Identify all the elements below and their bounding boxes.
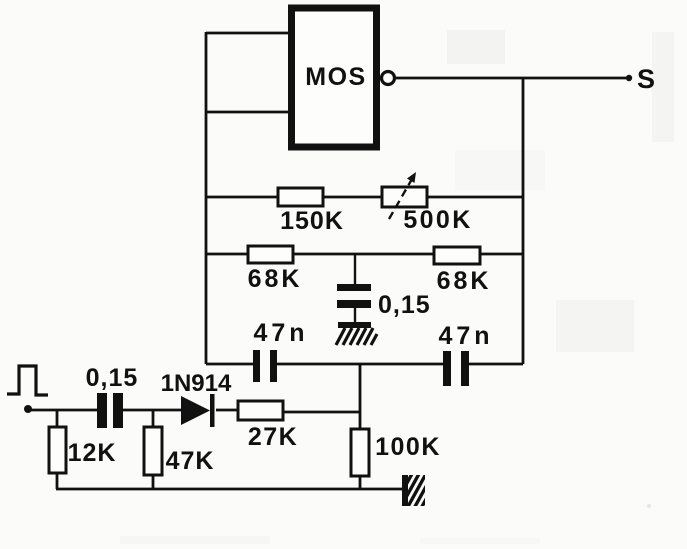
MOS inverter gate U1 bbox=[292, 8, 377, 147]
wire: input to capacitor 0,15 bbox=[28, 409, 97, 412]
svg-text:S: S bbox=[637, 64, 655, 94]
ghost scan artifact top right bbox=[447, 30, 674, 190]
wire: second gate input bbox=[206, 111, 292, 114]
svg-text:150K: 150K bbox=[280, 207, 344, 235]
svg-text:47n: 47n bbox=[253, 319, 308, 347]
svg-text:47n: 47n bbox=[438, 322, 493, 350]
capacitor 0,15 (input) bbox=[86, 364, 139, 428]
capacitor C 0,15 (mid) bbox=[337, 284, 431, 319]
svg-text:MOS: MOS bbox=[305, 63, 366, 91]
resistor 150K bbox=[278, 188, 344, 235]
wire: gate output to S bbox=[395, 77, 629, 80]
resistor 12K bbox=[49, 410, 116, 489]
resistor 68K left bbox=[248, 246, 303, 293]
svg-text:1N914: 1N914 bbox=[161, 370, 232, 397]
resistor 100K bbox=[351, 429, 441, 490]
wire: row 1 (150K / 500K) bbox=[206, 196, 523, 199]
ground (bottom right) bbox=[391, 472, 441, 512]
wire: bottom bus bbox=[56, 488, 402, 491]
resistor 27K bbox=[238, 401, 298, 451]
wire: capacitor to diode bbox=[123, 409, 181, 412]
input terminal dot bbox=[24, 405, 32, 413]
wire: row 2 (68K / 68K) bbox=[206, 253, 523, 256]
diode D1 1N914 bbox=[161, 370, 232, 427]
ghost scan artifact mid right bbox=[120, 300, 651, 544]
capacitor 47n right bbox=[438, 322, 493, 386]
output inversion bubble bbox=[382, 72, 395, 85]
ground (mid) bbox=[336, 322, 377, 345]
svg-text:27K: 27K bbox=[248, 423, 298, 451]
svg-text:500K: 500K bbox=[403, 206, 472, 234]
svg-text:0,15: 0,15 bbox=[378, 291, 431, 319]
wire: row 3 (47n caps) bbox=[206, 363, 253, 366]
svg-text:0,15: 0,15 bbox=[86, 364, 139, 392]
resistor 68K right bbox=[434, 247, 491, 295]
wire: row 3 right segment bbox=[469, 363, 523, 366]
wire: stub row2 to capacitor 0,15 bbox=[354, 254, 356, 285]
wire: right vertical bus bbox=[522, 78, 525, 364]
input pulse symbol bbox=[7, 366, 48, 395]
wire: diode to 27K bbox=[216, 409, 238, 412]
svg-text:68K: 68K bbox=[437, 267, 492, 295]
svg-text:100K: 100K bbox=[375, 433, 441, 461]
wire: top feedback to gate input bbox=[206, 32, 292, 35]
wire: middle vertical (row3 to bottom) bbox=[359, 364, 362, 430]
capacitor 47n left bbox=[253, 319, 309, 382]
svg-text:12K: 12K bbox=[68, 439, 117, 467]
wire: 27K to 100K node bbox=[283, 411, 360, 414]
resistor 47K bbox=[144, 410, 214, 489]
wire: row 3 middle segment bbox=[277, 363, 443, 366]
wire: capacitor to ground bbox=[354, 308, 356, 323]
svg-text:68K: 68K bbox=[248, 265, 303, 293]
svg-text:47K: 47K bbox=[166, 447, 215, 475]
node S terminal dot bbox=[626, 75, 632, 81]
wire: left vertical bus bbox=[205, 32, 208, 364]
resistor 500K (variable) bbox=[382, 172, 473, 234]
